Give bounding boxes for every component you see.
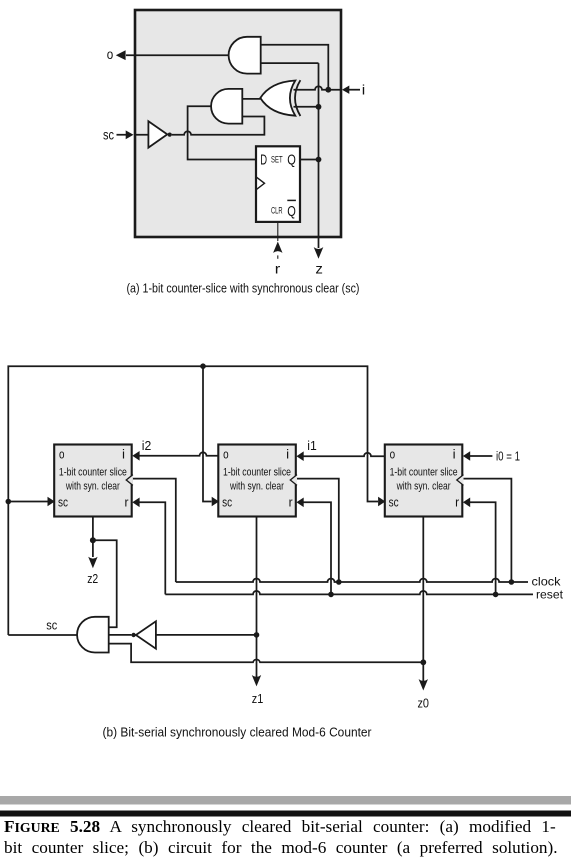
svg-text:with syn. clear: with syn. clear <box>229 480 284 492</box>
svg-text:clock: clock <box>532 575 562 589</box>
svg-text:z2: z2 <box>87 571 98 586</box>
svg-text:sc: sc <box>103 127 114 143</box>
svg-text:D: D <box>260 152 267 169</box>
svg-text:1-bit counter slice: 1-bit counter slice <box>390 466 458 478</box>
svg-text:i: i <box>453 447 456 462</box>
svg-text:sc: sc <box>389 495 399 510</box>
svg-text:(a) 1-bit counter-slice with s: (a) 1-bit counter-slice with synchronous… <box>127 280 360 295</box>
svg-text:o: o <box>390 447 396 462</box>
svg-text:o: o <box>107 46 114 62</box>
svg-text:with syn. clear: with syn. clear <box>396 480 451 492</box>
svg-text:z0: z0 <box>417 696 429 711</box>
svg-text:1-bit counter slice: 1-bit counter slice <box>223 466 291 478</box>
svg-text:sc: sc <box>58 495 68 510</box>
svg-text:i2: i2 <box>142 439 152 453</box>
svg-text:r: r <box>275 261 281 277</box>
svg-text:reset: reset <box>536 588 564 602</box>
svg-text:i: i <box>286 447 289 462</box>
svg-text:1-bit counter slice: 1-bit counter slice <box>59 466 127 478</box>
svg-text:r: r <box>289 495 294 510</box>
svg-text:CLR: CLR <box>271 206 283 216</box>
svg-text:Q: Q <box>287 153 296 169</box>
svg-text:o: o <box>223 447 229 462</box>
svg-text:r: r <box>455 495 460 510</box>
svg-text:(b) Bit-serial synchronously c: (b) Bit-serial synchronously cleared Mod… <box>103 725 373 740</box>
svg-text:SET: SET <box>271 155 283 165</box>
svg-text:with syn. clear: with syn. clear <box>65 480 120 492</box>
svg-text:i1: i1 <box>307 439 317 453</box>
svg-text:r: r <box>125 495 130 510</box>
svg-text:z: z <box>315 261 323 277</box>
svg-text:sc: sc <box>222 495 232 510</box>
svg-text:i: i <box>362 82 366 98</box>
svg-text:i0 = 1: i0 = 1 <box>496 450 520 464</box>
svg-text:sc: sc <box>46 618 57 632</box>
svg-text:z1: z1 <box>252 691 264 706</box>
svg-text:o: o <box>59 447 65 462</box>
svg-text:Q: Q <box>287 204 296 220</box>
svg-text:i: i <box>122 447 125 462</box>
